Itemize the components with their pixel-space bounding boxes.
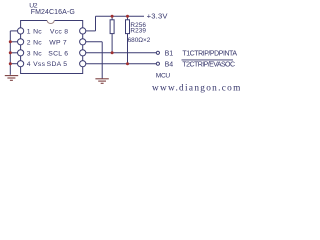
resistor R256	[110, 16, 114, 53]
svg-text:Vcc 8: Vcc 8	[50, 28, 69, 35]
wire Vcc pin8 to rail	[86, 16, 96, 31]
pin 1 circle	[18, 28, 24, 34]
svg-text:MCU: MCU	[156, 72, 171, 79]
wire +3.3V rail	[96, 15, 145, 17]
pin 4 circle	[18, 61, 24, 67]
svg-text:1 Nc: 1 Nc	[27, 28, 42, 35]
junction dot rail R256	[111, 15, 114, 18]
junction dot SCL R256	[111, 51, 114, 54]
svg-text:R239: R239	[130, 28, 146, 35]
svg-text:SCL 6: SCL 6	[48, 50, 68, 57]
wire SCL net	[86, 52, 157, 54]
pin 8 circle	[80, 28, 86, 34]
wire SDA net	[86, 63, 157, 65]
svg-text:+3.3V: +3.3V	[147, 12, 169, 21]
pin 7 circle	[80, 39, 86, 45]
svg-text:T1CTRIP/PDPINTA: T1CTRIP/PDPINTA	[182, 51, 237, 58]
svg-text:B4: B4	[165, 62, 174, 69]
svg-text:3 Nc: 3 Nc	[27, 50, 42, 57]
junction dot rail R239	[126, 15, 129, 18]
wire WP pin7 to ground	[86, 42, 102, 79]
junction dot bus pin4	[9, 62, 12, 65]
label T2CTRIP/EVASOC with overline	[182, 60, 235, 69]
svg-text:FM24C16A-G: FM24C16A-G	[31, 9, 75, 16]
ground symbol GND2	[95, 79, 108, 84]
svg-text:4 Vss: 4 Vss	[27, 61, 46, 68]
IC U2 notch	[47, 20, 54, 24]
junction dot SDA R239	[126, 62, 129, 65]
svg-text:www.diangon.com: www.diangon.com	[152, 83, 240, 93]
svg-text:T2CTRIP/EVASOC: T2CTRIP/EVASOC	[182, 62, 235, 69]
node SDA terminal circle	[156, 62, 159, 65]
pin 3 circle	[18, 50, 24, 56]
pin 6 circle	[80, 50, 86, 56]
svg-text:B1: B1	[165, 51, 174, 58]
resistor R239	[126, 16, 130, 64]
pin 2 circle	[18, 39, 24, 45]
junction dot bus pin3	[9, 51, 12, 54]
pin 5 circle	[80, 61, 86, 67]
ground bus (left, Vss net)	[10, 31, 17, 75]
IC U2 body	[21, 21, 83, 74]
ground symbol GND1	[5, 76, 18, 81]
svg-text:680Ω×2: 680Ω×2	[128, 37, 151, 44]
node SCL terminal circle	[156, 51, 159, 54]
svg-text:2 Nc: 2 Nc	[27, 39, 42, 46]
svg-text:SDA 5: SDA 5	[47, 61, 68, 68]
svg-text:WP 7: WP 7	[49, 39, 67, 46]
junction dot bus pin2	[9, 40, 12, 43]
